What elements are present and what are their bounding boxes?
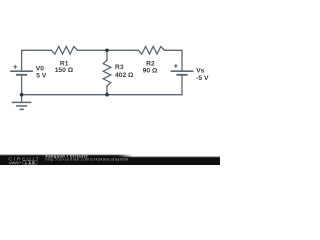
watermark left box — [0, 154, 134, 165]
node junction top (R3/top wire) — [105, 49, 109, 53]
watermark text lines — [45, 153, 135, 163]
svg-text:90 Ω: 90 Ω — [143, 67, 158, 74]
wire top-right segment — [165, 50, 183, 70]
ground — [12, 95, 32, 110]
svg-text:V0: V0 — [36, 65, 44, 72]
battery Vs — [171, 64, 194, 75]
logo CircuitLab — [6, 156, 42, 165]
battery V0 — [10, 65, 33, 75]
wire V0 bottom lead — [21, 75, 23, 94]
resistor R2 — [138, 47, 164, 55]
svg-text:LAB: LAB — [25, 161, 35, 165]
resistor R3 — [103, 60, 111, 86]
resistor R1 — [51, 47, 77, 55]
svg-text:-5 V: -5 V — [196, 75, 209, 82]
svg-text:http://circuitlab.com/c/k3kabc: http://circuitlab.com/c/k3kabcufaym6k — [46, 157, 129, 161]
svg-text:5 V: 5 V — [36, 73, 47, 80]
wire R3 top lead — [106, 50, 108, 60]
svg-text:Vs: Vs — [196, 68, 204, 75]
node junction bottom (R3/bottom wire) — [105, 93, 109, 97]
svg-text:402 Ω: 402 Ω — [115, 72, 134, 79]
svg-text:150 Ω: 150 Ω — [55, 67, 74, 74]
wire bottom segment — [22, 94, 182, 96]
wire R3 bottom lead — [106, 86, 108, 95]
wire top-left segment — [22, 50, 52, 70]
wire top-middle segment — [78, 49, 139, 51]
watermark bar full width — [0, 156, 220, 165]
svg-text:R3: R3 — [115, 64, 124, 71]
node junction ground (V0/bottom wire) — [20, 93, 24, 97]
wire Vs bottom lead — [181, 75, 183, 94]
